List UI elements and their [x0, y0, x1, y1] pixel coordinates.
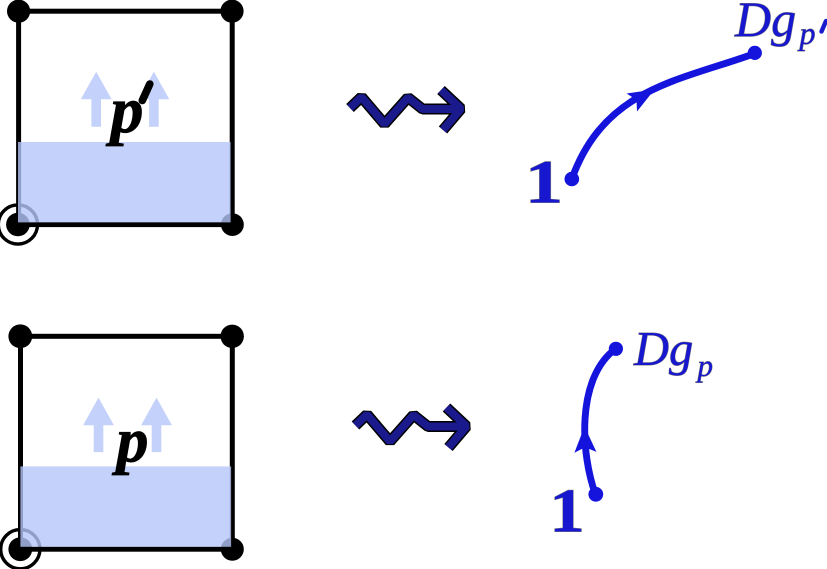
svg-text:Dg: Dg — [633, 323, 693, 376]
svg-text:p: p — [112, 405, 149, 476]
svg-text:1: 1 — [549, 475, 585, 545]
end dot lower — [609, 342, 623, 356]
start dot identity lower — [588, 487, 603, 502]
up arrow left upper square — [81, 72, 112, 127]
curve Dg lower — [585, 349, 616, 495]
corner dot upper square top-right — [220, 0, 243, 23]
square frame lower patch — [21, 336, 233, 549]
prime mark of p — [142, 84, 150, 101]
arrowhead on lower curve — [574, 427, 596, 453]
up arrow left lower square — [83, 398, 114, 453]
base point ring upper square — [0, 205, 38, 244]
corner dot upper square top-left — [7, 0, 30, 23]
base point ring lower square — [1, 530, 40, 569]
svg-text:Dg: Dg — [734, 0, 796, 47]
arrowhead on upper curve — [627, 90, 655, 112]
svg-text:p: p — [106, 74, 144, 147]
leadsto arrow lower — [356, 408, 467, 448]
fluid strip upper square — [18, 142, 231, 222]
corner dot lower square top-left — [8, 324, 32, 348]
corner dot lower square top-right — [221, 325, 244, 348]
label Dg p lower — [633, 323, 713, 383]
curve Dg upper — [572, 53, 756, 179]
start dot identity upper — [565, 172, 580, 187]
end dot upper — [748, 46, 762, 60]
up arrow right lower square — [141, 398, 172, 453]
leadsto arrow upper — [350, 90, 461, 130]
up arrow right upper square — [139, 72, 170, 127]
square frame upper patch — [19, 11, 233, 224]
label Dg p prime upper — [734, 0, 826, 51]
svg-text:p: p — [798, 15, 816, 51]
corner dot lower square bottom-right — [221, 538, 244, 561]
corner dot upper square bottom-right — [221, 213, 244, 236]
fluid strip lower square — [20, 466, 231, 546]
corner dot lower square bottom-left — [8, 537, 32, 561]
svg-text:1: 1 — [525, 149, 563, 217]
svg-text:p: p — [696, 348, 714, 383]
corner dot upper square bottom-left — [6, 213, 30, 237]
